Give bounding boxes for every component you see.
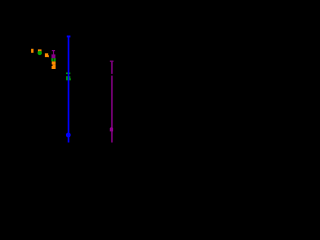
green square marker (stack) bbox=[51, 58, 55, 61]
orange square marker 3 bbox=[45, 53, 48, 57]
orange square marker 5 (stack lower) bbox=[52, 66, 56, 69]
blue errorbar stem bbox=[68, 37, 70, 143]
purple errorbar top cap (stack) bbox=[52, 50, 55, 51]
orange square marker 2 (behind green) bbox=[38, 49, 42, 53]
magenta errorbar top cap bbox=[110, 61, 114, 62]
green circle marker 1 bbox=[38, 51, 42, 55]
magenta pentagon marker bbox=[110, 127, 113, 132]
orange bump right of marker 3 bbox=[47, 55, 50, 57]
orange square marker 1 bbox=[31, 49, 33, 53]
purple marker (stack) bbox=[52, 54, 56, 58]
magenta errorbar stem upper segment bbox=[111, 62, 112, 74]
magenta errorbar stem lower segment bbox=[111, 76, 112, 143]
dark purple stem over green (stack) bbox=[52, 58, 55, 61]
orange square marker 4 (stack upper) bbox=[52, 61, 56, 64]
blue circle marker bbox=[66, 133, 71, 138]
purple errorbar stem (stack) bbox=[53, 51, 54, 55]
green errorbar top cap (on blue line) bbox=[66, 73, 70, 75]
orange stem segment (stack) bbox=[53, 64, 56, 66]
green square marker (on blue line) bbox=[66, 76, 70, 80]
blue errorbar top cap bbox=[67, 36, 71, 38]
green bump right of marker (on blue line) bbox=[69, 78, 72, 80]
